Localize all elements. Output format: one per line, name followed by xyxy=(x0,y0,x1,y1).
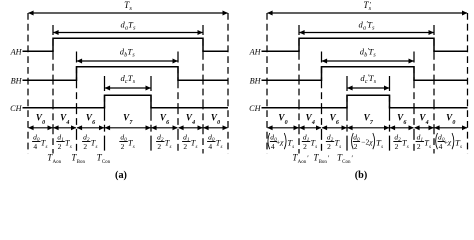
svg-text:2: 2 xyxy=(354,142,358,151)
label d2/2 Ts duration (fig a) xyxy=(156,132,171,151)
waveform AH (fig b) xyxy=(262,38,468,51)
label d2/2 Ts left (fig b) xyxy=(326,132,341,151)
dashed boundary line 2 (fig b) xyxy=(321,52,323,154)
segment arrow 1 (fig b) xyxy=(268,127,299,129)
segment arrow 5 (fig a) xyxy=(152,127,178,129)
dashed boundary line 4 (fig b) xyxy=(389,76,391,154)
dashed boundary line 2 (fig a) xyxy=(76,52,78,154)
waveform BH (fig b) xyxy=(262,67,468,81)
arrow dcTs span (fig a) xyxy=(105,87,150,89)
svg-text:2: 2 xyxy=(327,142,331,151)
svg-text:(a): (a) xyxy=(115,170,127,181)
arrow da′Ts span (fig b) xyxy=(300,32,434,34)
dashed boundary line 6 (fig a) xyxy=(202,25,204,154)
segment arrow 3 (fig a) xyxy=(77,127,104,129)
svg-text:2: 2 xyxy=(183,142,187,151)
svg-text:CH: CH xyxy=(249,104,261,113)
svg-text:AH: AH xyxy=(249,47,262,56)
svg-text:(b): (b) xyxy=(355,170,367,181)
waveform AH (fig a) xyxy=(23,38,229,51)
dashed boundary line 0 (fig b) xyxy=(266,13,268,154)
svg-text:2: 2 xyxy=(83,142,87,151)
dashed boundary line 1 (fig a) xyxy=(52,25,54,154)
arrow daTs span (fig a) xyxy=(54,32,203,34)
svg-text:CH: CH xyxy=(10,104,22,113)
svg-text:4: 4 xyxy=(439,142,443,151)
label d2/2 Ts duration (fig a) xyxy=(82,132,97,151)
segment arrow 7 (fig b) xyxy=(435,127,467,129)
svg-text:χ: χ xyxy=(447,138,452,147)
segment arrow 1 (fig a) xyxy=(29,127,53,129)
dashed boundary line 3 (fig b) xyxy=(346,76,348,154)
label d1/2 Ts duration (fig a) xyxy=(182,132,197,151)
label (d0/2-2chi)Ts middle (fig b) xyxy=(351,132,383,151)
waveform CH (fig a) xyxy=(23,95,229,107)
svg-text:2: 2 xyxy=(58,142,62,151)
arrow Ts span (fig a) xyxy=(29,12,228,14)
label d2/2 Ts right (fig b) xyxy=(393,132,408,151)
label d0/4 Ts duration (fig a) xyxy=(32,132,47,151)
svg-text:χ: χ xyxy=(279,138,284,147)
svg-text:4: 4 xyxy=(33,142,37,151)
label d1/2 Ts duration (fig a) xyxy=(56,132,71,151)
dashed boundary line 7 (fig a) xyxy=(227,13,229,154)
segment arrow 4 (fig b) xyxy=(348,127,389,129)
svg-text:4: 4 xyxy=(271,142,275,151)
dashed boundary line 7 (fig b) xyxy=(467,13,469,154)
segment arrow 2 (fig b) xyxy=(300,127,321,129)
segment arrow 3 (fig b) xyxy=(322,127,346,129)
label d1/2 Ts left (fig b) xyxy=(302,132,317,151)
segment arrow 4 (fig a) xyxy=(105,127,150,129)
segment arrow 6 (fig b) xyxy=(415,127,434,129)
svg-text:2: 2 xyxy=(303,142,307,151)
segment arrow 6 (fig a) xyxy=(179,127,203,129)
segment arrow 7 (fig a) xyxy=(204,127,228,129)
dashed boundary line 6 (fig b) xyxy=(433,25,435,154)
svg-text:4: 4 xyxy=(208,142,212,151)
svg-text:BH: BH xyxy=(11,76,23,85)
svg-text:BH: BH xyxy=(250,76,262,85)
label (d0/4+chi)Ts left (fig b) xyxy=(268,132,294,151)
arrow dbTs span (fig a) xyxy=(77,60,177,62)
svg-text:2: 2 xyxy=(121,142,125,151)
dashed boundary line 1 (fig b) xyxy=(298,25,300,154)
segment arrow 5 (fig b) xyxy=(390,127,413,129)
arrow db′Ts span (fig b) xyxy=(322,60,413,62)
arrow dc′Ts span (fig b) xyxy=(348,87,389,89)
svg-text:2: 2 xyxy=(395,142,399,151)
dashed boundary line 0 (fig a) xyxy=(27,13,29,154)
waveform BH (fig a) xyxy=(23,67,229,81)
dashed boundary line 5 (fig b) xyxy=(413,52,415,154)
dashed boundary line 4 (fig a) xyxy=(150,76,152,154)
svg-text:2χ: 2χ xyxy=(366,138,374,147)
arrow Ts′ span (fig b) xyxy=(268,12,467,14)
label d0/2 Ts duration (fig a) xyxy=(119,132,134,151)
svg-text:AH: AH xyxy=(10,47,23,56)
segment arrow 2 (fig a) xyxy=(54,127,76,129)
label (d0/4+chi)Ts right (fig b) xyxy=(436,132,462,151)
dashed boundary line 3 (fig a) xyxy=(104,76,106,154)
waveform CH (fig b) xyxy=(262,95,468,107)
svg-text:2: 2 xyxy=(157,142,161,151)
dashed boundary line 5 (fig a) xyxy=(177,52,179,154)
svg-text:2: 2 xyxy=(417,142,421,151)
label d0/4 Ts duration (fig a) xyxy=(207,132,222,151)
label d1/2 Ts right (fig b) xyxy=(416,132,431,151)
